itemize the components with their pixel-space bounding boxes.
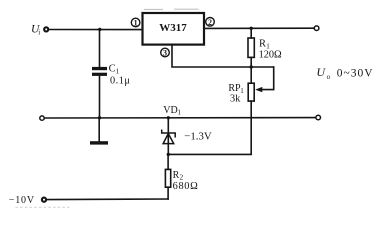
svg-text:C: C [109, 64, 116, 75]
label C1 [109, 64, 131, 87]
svg-text:VD: VD [163, 105, 177, 116]
svg-text:120Ω: 120Ω [259, 50, 282, 61]
svg-text:1: 1 [240, 87, 244, 95]
scan artifact bottom dotted remnant [15, 206, 69, 208]
pin 1 [131, 18, 140, 27]
wire input rail [49, 29, 142, 31]
terminal bus left [40, 116, 44, 120]
svg-text:U: U [316, 65, 326, 79]
label Uo 0~30V [316, 65, 373, 81]
diode VD1 zener [162, 130, 176, 143]
wire output rail [204, 27, 314, 29]
label R1 [259, 38, 282, 60]
svg-text:1: 1 [134, 19, 138, 28]
terminal Uo [314, 26, 319, 31]
resistor R1 [248, 38, 254, 57]
label Ui [31, 24, 40, 37]
svg-text:0~30V: 0~30V [337, 67, 374, 79]
svg-text:R: R [259, 38, 266, 49]
wire R2 lower lead [167, 187, 169, 199]
svg-text:−10V: −10V [9, 195, 35, 206]
wire diode upper lead [167, 118, 169, 155]
wire -10V rail [47, 198, 168, 201]
node diode bottom junction [167, 153, 170, 156]
wire ground lead [98, 118, 100, 142]
op-amp U1 W317 regulator box [143, 13, 205, 45]
svg-text:−1.3V: −1.3V [184, 131, 212, 143]
wire R1 lower lead [250, 57, 252, 67]
svg-text:i: i [38, 28, 40, 36]
node C1 bus junction [98, 116, 101, 119]
wire pin3 to ADJ node [172, 45, 274, 67]
wire RP1 upper lead [250, 67, 252, 83]
label R2 [173, 170, 199, 192]
ground [90, 141, 108, 144]
node ADJ junction [250, 65, 253, 68]
pin 2 [206, 18, 215, 27]
svg-text:2: 2 [208, 18, 212, 27]
capacitor C1 [92, 67, 107, 70]
svg-text:1: 1 [116, 67, 120, 75]
wire RP1 lower lead [168, 101, 251, 154]
svg-text:3: 3 [163, 49, 167, 58]
node diode top junction [167, 116, 170, 119]
wire C1 lower lead [99, 76, 101, 118]
wiper arrow [255, 87, 262, 92]
resistor R2 [165, 169, 170, 187]
pin 3 [161, 48, 170, 57]
svg-text:3k: 3k [230, 94, 241, 105]
terminal -10V [42, 198, 46, 202]
scan artifact top dashes [144, 8, 199, 10]
svg-text:RP: RP [228, 83, 241, 94]
label RP1 [228, 83, 244, 105]
wire R2 upper lead [167, 154, 169, 169]
svg-text:o: o [327, 73, 331, 81]
svg-text:0.1μ: 0.1μ [110, 75, 130, 86]
label VD1 [163, 105, 181, 117]
node R1 top junction [250, 27, 253, 30]
terminal Ui [44, 27, 48, 31]
svg-text:1: 1 [178, 108, 182, 116]
wire ground bus [45, 117, 315, 119]
node C1 top junction [98, 28, 101, 31]
svg-text:R: R [173, 170, 180, 181]
wire R1 upper lead [250, 28, 252, 38]
wire C1 upper lead [99, 29, 101, 67]
svg-text:680Ω: 680Ω [173, 181, 199, 192]
wire RP1 wiper loop [262, 67, 274, 90]
potentiometer RP1 [248, 83, 254, 101]
terminal bus right [316, 115, 321, 120]
svg-text:W317: W317 [159, 22, 187, 34]
